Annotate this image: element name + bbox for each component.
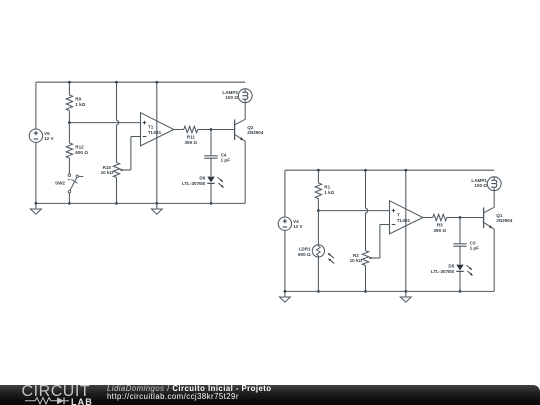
svg-text:R1: R1 xyxy=(324,185,330,190)
svg-text:1 kΩ: 1 kΩ xyxy=(75,102,85,107)
wire base xyxy=(211,129,235,131)
svg-text:390 Ω: 390 Ω xyxy=(433,228,446,233)
wire op-amp supply column xyxy=(155,81,158,84)
op-amp T xyxy=(390,201,423,234)
photoresistor LDR1 xyxy=(312,245,324,257)
svg-text:12 V: 12 V xyxy=(293,224,303,229)
svg-text:V5: V5 xyxy=(44,131,50,136)
transistor Q1 xyxy=(483,207,485,228)
lamp LAMP1 xyxy=(487,177,501,191)
resistor R12 xyxy=(68,123,70,143)
wire base xyxy=(460,217,484,219)
svg-text:10 kΩ: 10 kΩ xyxy=(101,170,114,175)
wire bottom rail xyxy=(285,290,494,292)
wire left column top xyxy=(35,82,37,129)
svg-text:2N3904: 2N3904 xyxy=(247,130,264,135)
svg-text:100 Ω: 100 Ω xyxy=(474,183,487,188)
svg-text:D6: D6 xyxy=(199,176,205,181)
op-amp T1 xyxy=(141,113,174,146)
svg-text:LAMP1: LAMP1 xyxy=(471,178,487,183)
wire left column top xyxy=(284,170,286,217)
wire potentiometer column xyxy=(115,81,118,84)
lamp LAMP2 xyxy=(238,89,252,103)
wire top rail xyxy=(36,81,245,83)
svg-text:LTL-307EE: LTL-307EE xyxy=(182,181,205,186)
svg-text:SW2: SW2 xyxy=(55,181,65,186)
svg-text:600 Ω: 600 Ω xyxy=(75,150,88,155)
LED D5 xyxy=(456,265,463,271)
svg-text:R3: R3 xyxy=(437,223,443,228)
voltage source V4 xyxy=(278,217,291,230)
node output junction xyxy=(210,128,213,131)
potentiometer R2 xyxy=(362,251,368,266)
voltage source V5 xyxy=(29,129,42,142)
svg-text:12 V: 12 V xyxy=(44,136,54,141)
capacitor C3 xyxy=(459,218,461,244)
ground center xyxy=(156,203,158,209)
svg-text:LAMP2: LAMP2 xyxy=(222,90,238,95)
svg-text:600 Ω: 600 Ω xyxy=(298,252,311,257)
ground left xyxy=(284,291,286,297)
wire op-amp supply column xyxy=(404,169,407,172)
footer bar xyxy=(0,385,540,405)
svg-text:LDR1: LDR1 xyxy=(299,247,311,252)
wire left column bottom xyxy=(35,142,37,203)
node noninverting input wire xyxy=(68,121,71,124)
potentiometer R10 xyxy=(113,163,119,178)
svg-text:R12: R12 xyxy=(75,145,84,150)
svg-text:2N3904: 2N3904 xyxy=(496,218,513,223)
node output junction xyxy=(459,216,462,219)
switch SW2 xyxy=(68,174,71,177)
svg-text:1 kΩ: 1 kΩ xyxy=(324,190,334,195)
LED D6 xyxy=(207,177,214,183)
ground left xyxy=(35,203,37,209)
resistor R9 xyxy=(68,81,71,84)
svg-text:10 kΩ: 10 kΩ xyxy=(350,258,363,263)
wire potentiometer wiper to inverting input xyxy=(369,257,380,259)
transistor Q2 xyxy=(234,119,236,140)
svg-text:LTL-307EE: LTL-307EE xyxy=(431,269,454,274)
svg-text:390 Ω: 390 Ω xyxy=(184,140,197,145)
svg-text:1 μF: 1 μF xyxy=(221,158,231,163)
svg-text:V4: V4 xyxy=(293,219,299,224)
resistor R3 xyxy=(423,217,433,219)
svg-text:100 Ω: 100 Ω xyxy=(225,95,238,100)
svg-text:D5: D5 xyxy=(448,264,454,269)
wire potentiometer column xyxy=(364,169,367,172)
logo resistor-diode squiggle xyxy=(25,396,71,405)
svg-text:TL081: TL081 xyxy=(397,218,411,223)
wire potentiometer wiper to inverting input xyxy=(120,169,131,171)
svg-text:1 μF: 1 μF xyxy=(470,246,480,251)
resistor R11 xyxy=(174,129,184,131)
wire left column bottom xyxy=(284,230,286,291)
wire top rail xyxy=(285,169,494,171)
node noninverting input wire xyxy=(317,209,320,212)
wire bottom rail xyxy=(36,202,245,204)
resistor R1 xyxy=(317,169,320,172)
svg-text:TL081: TL081 xyxy=(148,130,162,135)
ground center xyxy=(405,291,407,297)
svg-text:R9: R9 xyxy=(75,97,81,102)
svg-text:R11: R11 xyxy=(187,135,196,140)
capacitor C4 xyxy=(210,130,212,156)
